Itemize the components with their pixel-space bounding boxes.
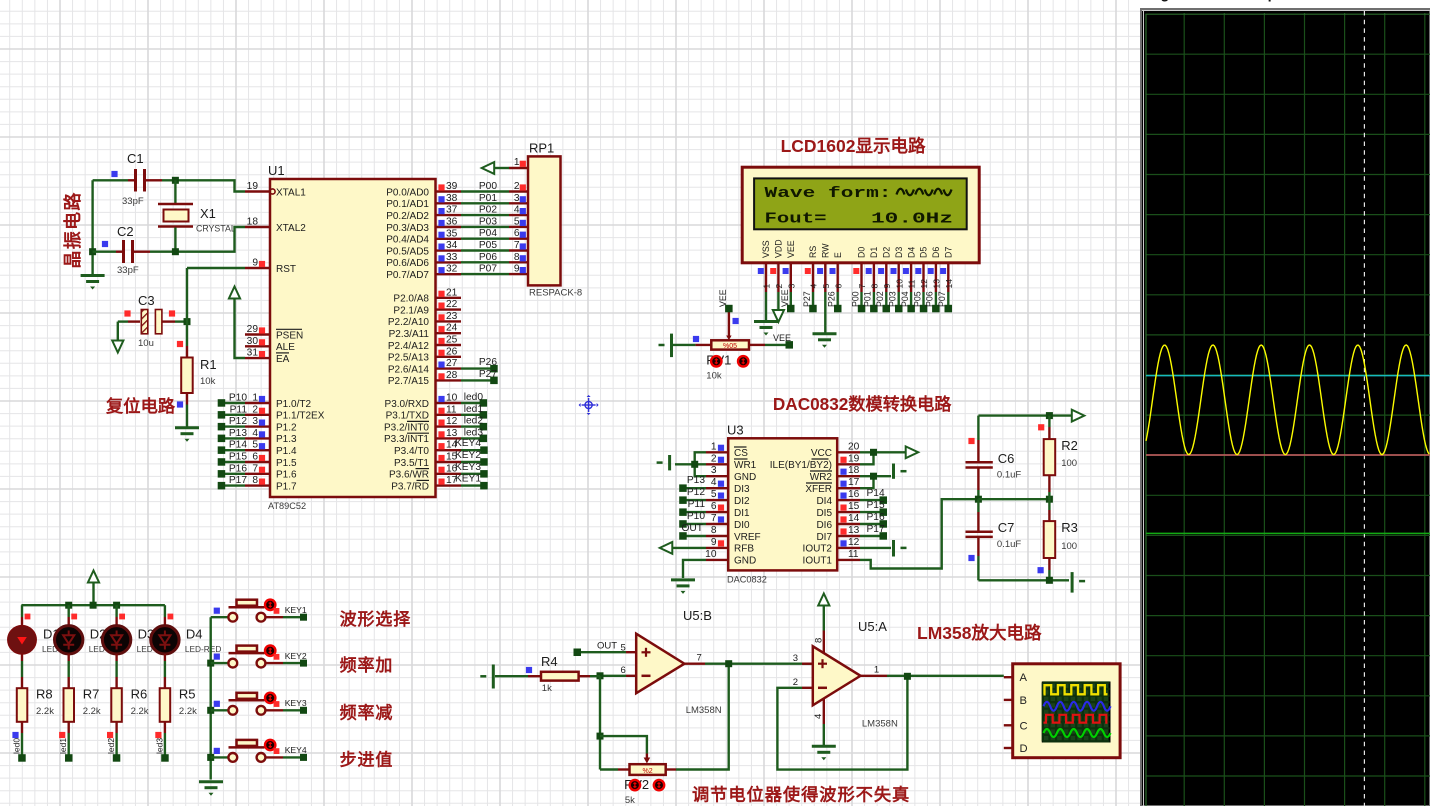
wire RST net vertical — [186, 268, 188, 346]
svg-text:P1.1/T2EX: P1.1/T2EX — [276, 411, 325, 422]
capacitor C3 (10u) — [118, 320, 128, 322]
scope channel C position line red — [1146, 454, 1430, 456]
RV2 wiper — [646, 754, 648, 761]
svg-text:36: 36 — [446, 217, 458, 228]
wire feedback to RV2 left — [600, 768, 618, 770]
svg-text:P1.3: P1.3 — [276, 434, 297, 445]
svg-text:5k: 5k — [625, 795, 635, 806]
svg-text:D2: D2 — [882, 247, 892, 258]
potentiometer RV1 10k body — [711, 340, 749, 349]
svg-text:P27: P27 — [802, 291, 812, 307]
svg-text:17: 17 — [848, 477, 860, 488]
svg-text:LM358放大电路: LM358放大电路 — [917, 623, 1042, 643]
svg-text:P11: P11 — [230, 404, 248, 415]
scope mini screen — [1043, 683, 1110, 742]
svg-text:6: 6 — [514, 228, 520, 239]
svg-text:led1: led1 — [58, 738, 68, 754]
svg-text:PSEN: PSEN — [276, 330, 303, 341]
svg-text:EA: EA — [276, 354, 290, 365]
power terminal up (EA) — [229, 287, 240, 299]
svg-text:32: 32 — [446, 264, 458, 275]
marker blue RV1 wiper — [733, 318, 739, 324]
svg-text:8: 8 — [711, 525, 717, 536]
U3 pin 6 DI1 — [706, 511, 728, 513]
LCD LCD1 body — [742, 167, 979, 263]
node junction R3 bottom — [1046, 577, 1053, 584]
wire net P00 (LCD D0) — [860, 292, 862, 309]
svg-text:P12: P12 — [229, 416, 247, 427]
svg-text:100: 100 — [1061, 458, 1077, 469]
U1 pin 13 P3.3/INT1 — [436, 437, 462, 439]
wire key bus vertical — [209, 617, 211, 779]
U1 pin 37 P0.2/AD2 — [436, 214, 462, 216]
wire net KEY1 — [265, 616, 283, 618]
scope grid — [1146, 13, 1430, 806]
U5:A pin1 output — [861, 675, 888, 677]
U3 pin 4 DI3 — [706, 487, 728, 489]
svg-text:P1.5: P1.5 — [276, 458, 297, 469]
power terminal up (LED rail) — [88, 571, 99, 583]
capacitor C2 — [93, 250, 116, 252]
svg-text:KEY4: KEY4 — [285, 745, 307, 755]
capacitor C7 0.1uF — [977, 499, 979, 512]
potentiometer RV2 5k body — [630, 764, 666, 775]
svg-text:OUT: OUT — [597, 641, 617, 652]
svg-text:VDD: VDD — [774, 239, 784, 258]
svg-text:14: 14 — [944, 279, 954, 289]
wire bus to KEY2 — [211, 662, 228, 664]
svg-text:R3: R3 — [1061, 520, 1078, 535]
wire net P13 — [221, 437, 245, 439]
svg-text:C: C — [1020, 720, 1028, 732]
U1 pin 17 P3.7/RD — [436, 484, 462, 486]
svg-text:GND: GND — [734, 556, 756, 567]
svg-text:VCC: VCC — [811, 448, 832, 459]
svg-text:15: 15 — [848, 501, 860, 512]
overline XFER — [806, 482, 832, 484]
svg-text:12: 12 — [446, 416, 458, 427]
wire feedback vertical — [599, 676, 601, 769]
svg-text:6: 6 — [252, 452, 258, 463]
wire net led2 — [115, 733, 117, 758]
overline CS — [734, 446, 747, 448]
terminal bar (RV1 left) — [670, 334, 673, 358]
ground (U5:A) — [812, 745, 836, 748]
resistor R8 2.2k — [21, 677, 23, 688]
svg-text:VEE: VEE — [786, 240, 796, 258]
resistor R7 2.2k — [67, 677, 69, 688]
svg-text:100: 100 — [1061, 541, 1077, 552]
wire C3 to RST/R1 — [175, 320, 187, 322]
svg-text:步进值: 步进值 — [340, 749, 394, 769]
svg-text:led3: led3 — [464, 427, 484, 438]
marker red R2 — [1038, 424, 1044, 430]
svg-text:P2.6/A14: P2.6/A14 — [388, 364, 430, 375]
svg-text:P0.0/AD0: P0.0/AD0 — [386, 187, 429, 198]
wire U3 ILE to VCC — [860, 452, 874, 464]
svg-text:P06: P06 — [479, 252, 497, 263]
svg-text:LM358N: LM358N — [862, 719, 898, 730]
svg-text:晶振电路: 晶振电路 — [62, 191, 83, 268]
wire LCD RW to ground — [824, 292, 826, 333]
wire C1 to XTAL1 — [162, 180, 245, 191]
wire net P00 U1 to RP1 pin 2 — [461, 190, 509, 192]
svg-text:3: 3 — [786, 284, 796, 289]
svg-text:调节电位器使得波形不失真: 调节电位器使得波形不失真 — [692, 785, 910, 805]
wire net led1 — [67, 733, 69, 758]
svg-text:P05: P05 — [912, 291, 922, 307]
svg-text:P0.2/AD2: P0.2/AD2 — [386, 211, 429, 222]
U1 pin 8 P1.7 — [245, 484, 270, 486]
svg-text:33pF: 33pF — [117, 265, 139, 276]
wire net P07 U1 to RP1 pin 9 — [461, 273, 509, 275]
svg-text:U3: U3 — [727, 423, 744, 438]
svg-text:23: 23 — [446, 311, 458, 322]
switch KEY3 — [228, 706, 237, 715]
svg-text:led2: led2 — [106, 738, 116, 754]
power arrow right (VCC) — [906, 446, 919, 458]
svg-text:WR2: WR2 — [810, 472, 833, 483]
U1 pin 21 P2.0/A8 — [436, 297, 462, 299]
U5:B minus — [642, 675, 651, 678]
svg-text:P2.3/A11: P2.3/A11 — [389, 329, 430, 340]
wire net P27 — [461, 379, 494, 381]
svg-text:8: 8 — [514, 252, 520, 263]
wire LED rail to D4 — [164, 605, 166, 617]
wire D3 to R6 — [115, 654, 117, 661]
wire net KEY3 — [265, 709, 283, 711]
svg-text:P13: P13 — [687, 475, 705, 486]
svg-text:R7: R7 — [83, 687, 100, 702]
U3 pin 9 RFB — [706, 547, 728, 549]
svg-text:DI3: DI3 — [734, 484, 750, 495]
svg-text:13: 13 — [932, 279, 942, 289]
marker led1 — [59, 732, 65, 738]
op-amp U5:A — [813, 646, 861, 705]
U1 pin 26 P2.5/A13 — [436, 356, 462, 358]
svg-text:RS: RS — [808, 246, 818, 258]
wire R1 to ground — [186, 405, 188, 428]
svg-text:1: 1 — [514, 157, 520, 168]
svg-text:RFB: RFB — [734, 544, 754, 555]
svg-text:KEY4: KEY4 — [455, 438, 481, 449]
ground (U3) — [671, 578, 695, 581]
wire net led3 — [164, 733, 166, 758]
mini waveform red square — [1044, 715, 1108, 723]
wire U3 WR2/XFER tie — [860, 476, 874, 488]
svg-text:P15: P15 — [867, 500, 885, 511]
U1 pin 4 P1.3 — [245, 437, 270, 439]
wire net P06 (LCD D6) — [935, 292, 937, 309]
wire LED rail to D2 — [67, 605, 69, 617]
svg-text:XFER: XFER — [805, 484, 832, 495]
svg-text:C6: C6 — [998, 451, 1015, 466]
svg-text:P14: P14 — [867, 488, 885, 499]
U1 pin 24 P2.3/A11 — [436, 332, 462, 334]
U1 pin 34 P0.5/AD5 — [436, 249, 462, 251]
U1 pin 11 P3.1/TXD — [436, 414, 462, 416]
ground (crystal) — [81, 274, 105, 277]
svg-text:KEY2: KEY2 — [285, 651, 307, 661]
svg-text:Fout=: Fout= — [765, 211, 827, 228]
svg-text:P00: P00 — [479, 181, 497, 192]
svg-text:VEE: VEE — [718, 289, 728, 307]
node junction pin1/feedback — [904, 673, 911, 680]
svg-text:10k: 10k — [706, 371, 722, 382]
wire net P10 (U3) — [683, 523, 706, 525]
svg-text:37: 37 — [446, 205, 458, 216]
overline INT0 — [407, 420, 429, 422]
svg-text:P3.6/WR: P3.6/WR — [389, 470, 429, 481]
U1 pin 33 P0.6/AD6 — [436, 261, 462, 263]
wire net P14 (U3) — [860, 499, 883, 501]
wire net VEE (RV1 wiper) — [725, 305, 733, 313]
svg-text:IOUT1: IOUT1 — [803, 556, 833, 567]
svg-text:P11: P11 — [688, 499, 706, 510]
svg-text:P04: P04 — [900, 291, 910, 307]
svg-text:2.2k: 2.2k — [36, 706, 54, 717]
svg-text:18: 18 — [247, 217, 259, 228]
node junction X1 bottom — [172, 248, 179, 255]
wire net P17 — [221, 484, 245, 486]
U3 pin 19 ILE(BY1/BY2) — [837, 463, 860, 465]
svg-text:P16: P16 — [867, 512, 885, 523]
svg-text:5: 5 — [711, 489, 717, 500]
wire U3 GND10 to ground — [683, 560, 706, 578]
svg-text:4: 4 — [711, 477, 717, 488]
svg-text:led3: led3 — [154, 738, 164, 754]
svg-text:P01: P01 — [479, 193, 497, 204]
svg-text:1: 1 — [252, 393, 258, 404]
wire net P10 — [221, 402, 245, 404]
overline RD — [417, 479, 430, 481]
svg-text:9: 9 — [882, 284, 892, 289]
wire net KEY3 — [461, 473, 484, 475]
LED D2 — [67, 617, 69, 626]
U1 pin 25 P2.4/A12 — [436, 344, 462, 346]
svg-text:26: 26 — [446, 346, 458, 357]
svg-text:led0: led0 — [464, 392, 484, 403]
U1 pin 7 P1.6 — [245, 473, 270, 475]
scope channel D position line green — [1146, 532, 1430, 534]
wire net P04 U1 to RP1 pin 6 — [461, 237, 509, 239]
resistor R3 100 — [1048, 499, 1050, 510]
wire C2 to XTAL2 — [150, 227, 245, 252]
svg-text:VEE: VEE — [780, 289, 790, 307]
mini waveform blue sine — [1044, 702, 1111, 711]
svg-text:8: 8 — [252, 475, 258, 486]
resistor R1 10k — [186, 346, 188, 358]
svg-text:7: 7 — [697, 653, 702, 664]
marker blue R1 bottom — [177, 401, 183, 407]
node junction key bus — [207, 707, 214, 714]
wire net P13 (U3) — [683, 487, 706, 489]
marker blue KEY2 — [214, 654, 220, 660]
U3 pin 15 DI5 — [837, 511, 860, 513]
svg-text:E: E — [833, 252, 843, 258]
wire bus to KEY4 — [211, 756, 228, 758]
svg-text:%05: %05 — [723, 343, 737, 350]
svg-text:%2: %2 — [643, 768, 653, 775]
svg-text:38: 38 — [446, 193, 458, 204]
svg-text:VEE: VEE — [773, 333, 791, 343]
IC U3 DAC0832 body — [728, 438, 837, 570]
oscilloscope window title bar — [1137, 0, 1430, 10]
svg-text:D1: D1 — [869, 247, 879, 258]
svg-text:R2: R2 — [1061, 438, 1078, 453]
wire net OUT (U5:B pin5) — [577, 651, 626, 653]
marker red D4 top — [168, 614, 174, 620]
svg-text:2.2k: 2.2k — [83, 706, 101, 717]
LCD wave glyphs — [897, 189, 952, 196]
svg-text:P3.5/T1: P3.5/T1 — [394, 458, 429, 469]
svg-text:6: 6 — [833, 284, 843, 289]
wire net P11 (U3) — [683, 511, 706, 513]
svg-text:P07: P07 — [937, 291, 947, 307]
svg-text:CRYSTAL: CRYSTAL — [196, 224, 236, 234]
svg-text:LED-RED: LED-RED — [185, 644, 221, 654]
svg-text:27: 27 — [446, 358, 458, 369]
svg-text:2: 2 — [793, 677, 798, 688]
power arrow right (top rail) — [1072, 410, 1085, 422]
svg-text:RESPACK-8: RESPACK-8 — [529, 288, 582, 299]
U3 pin 13 DI7 — [837, 535, 860, 537]
svg-text:P06: P06 — [925, 291, 935, 307]
terminal bar (bottom rail) — [1071, 572, 1074, 593]
marker led2 — [107, 732, 113, 738]
RV2 adjust buttons — [630, 780, 640, 790]
svg-text:P3.7/RD: P3.7/RD — [391, 481, 429, 492]
U3 pin 16 DI4 — [837, 499, 860, 501]
button KEY4 — [265, 740, 275, 750]
LED D4 — [164, 617, 166, 626]
svg-text:P0.3/AD3: P0.3/AD3 — [386, 223, 429, 234]
svg-text:25: 25 — [446, 335, 458, 346]
U1 pin 29 PSEN — [245, 333, 270, 335]
svg-text:22: 22 — [446, 299, 458, 310]
U1 pin 18 XTAL2 — [245, 226, 270, 228]
wire net P07 (LCD D7) — [947, 292, 949, 309]
svg-text:P01: P01 — [863, 291, 873, 307]
svg-text:CS: CS — [734, 448, 748, 459]
U3 pin 1 CS — [706, 451, 728, 453]
marker red KEY3 — [274, 701, 280, 707]
node junction U3 pin2 — [691, 461, 698, 468]
U3 RFB left arrow terminal — [672, 547, 706, 549]
U1 pin 16 P3.6/WR — [436, 473, 462, 475]
svg-text:3: 3 — [793, 653, 798, 664]
wire net P15 (U3) — [860, 511, 883, 513]
node junction R2/R3 — [1046, 496, 1053, 503]
svg-text:B: B — [1020, 695, 1027, 707]
marker led3 — [155, 732, 161, 738]
marker red KEY4 — [274, 748, 280, 754]
svg-text:10k: 10k — [200, 376, 216, 387]
wire net led1 — [461, 414, 483, 416]
svg-text:AT89C52: AT89C52 — [268, 501, 306, 511]
marker blue RV1 left — [693, 336, 699, 342]
U3 pin 10 GND — [706, 559, 728, 561]
svg-text:P16: P16 — [229, 463, 247, 474]
button KEY2 — [265, 646, 275, 656]
wire terminal to R4 — [495, 675, 528, 677]
svg-text:7: 7 — [857, 284, 867, 289]
svg-text:34: 34 — [446, 240, 458, 251]
svg-text:2: 2 — [711, 453, 717, 464]
U1 pin 1 P1.0/T2 — [245, 402, 270, 404]
capacitor C1 — [93, 179, 128, 181]
marker red C3 right — [169, 310, 175, 316]
svg-text:DAC0832数模转换电路: DAC0832数模转换电路 — [773, 394, 952, 414]
U5:A pin4 to ground — [823, 699, 825, 725]
U1 pin 10 P3.0/RXD — [436, 402, 462, 404]
U3 pin 8 VREF — [706, 535, 728, 537]
U3 pin 20 VCC — [837, 451, 860, 453]
marker blue R3 — [1038, 567, 1044, 573]
svg-text:Digital Oscilloscope: Digital Oscilloscope — [1146, 0, 1285, 3]
ground (LCD RW) — [813, 332, 837, 335]
svg-text:1k: 1k — [542, 683, 552, 694]
node junction mid rail C6/C7 — [975, 496, 982, 503]
marker blue KEY1 — [214, 608, 220, 614]
svg-text:P2.7/A15: P2.7/A15 — [388, 376, 430, 387]
svg-text:R6: R6 — [131, 687, 148, 702]
ground (LCD VSS) — [754, 320, 778, 323]
node junction LED rail — [65, 602, 72, 609]
svg-text:KEY1: KEY1 — [285, 605, 307, 615]
wire D2 to R7 — [67, 654, 69, 661]
wire top rail C6/R2 — [978, 414, 1072, 416]
svg-text:LM358N: LM358N — [686, 705, 722, 716]
svg-text:P1.2: P1.2 — [276, 422, 297, 433]
wire net P05 U1 to RP1 pin 7 — [461, 249, 509, 251]
U1 pin 31 EA — [245, 357, 270, 359]
svg-text:14: 14 — [848, 513, 860, 524]
overline WR2 — [810, 470, 832, 472]
U1 pin 15 P3.5/T1 — [436, 461, 462, 463]
wire net led0 — [21, 733, 23, 758]
U3 pin 14 DI6 — [837, 523, 860, 525]
svg-text:D3: D3 — [894, 247, 904, 258]
U1 pin 9 RST — [245, 267, 270, 269]
svg-text:C7: C7 — [998, 520, 1015, 535]
RV1 wiper — [728, 311, 730, 337]
marker red D2 top — [71, 614, 77, 620]
wire U5:A pin8 — [823, 606, 825, 631]
svg-text:WR1: WR1 — [734, 460, 757, 471]
svg-text:11: 11 — [848, 549, 859, 560]
wire U3 CS/WR1/GND tie — [695, 452, 706, 476]
ground (keys) — [199, 780, 223, 783]
RV1 left pin — [695, 344, 711, 346]
wire net KEY1 — [461, 484, 484, 486]
U3 pin 3 GND — [706, 475, 728, 477]
marker blue C1 — [111, 171, 117, 177]
wire bus to KEY3 — [211, 709, 228, 711]
svg-text:IOUT2: IOUT2 — [803, 544, 833, 555]
wire net led0 — [461, 402, 483, 404]
marker red C3 left — [124, 310, 130, 316]
U1 pin 39 P0.0/AD0 — [436, 190, 462, 192]
svg-text:0.1uF: 0.1uF — [997, 539, 1021, 550]
svg-text:33pF: 33pF — [122, 196, 144, 207]
wire net P27 (LCD RS) — [812, 292, 814, 309]
svg-text:D5: D5 — [919, 247, 929, 258]
U5:A pin2 wire feedback — [802, 687, 813, 689]
wire net KEY2 — [461, 461, 484, 463]
svg-text:P0.4/AD4: P0.4/AD4 — [386, 235, 429, 246]
U3 pin 5 DI2 — [706, 499, 728, 501]
